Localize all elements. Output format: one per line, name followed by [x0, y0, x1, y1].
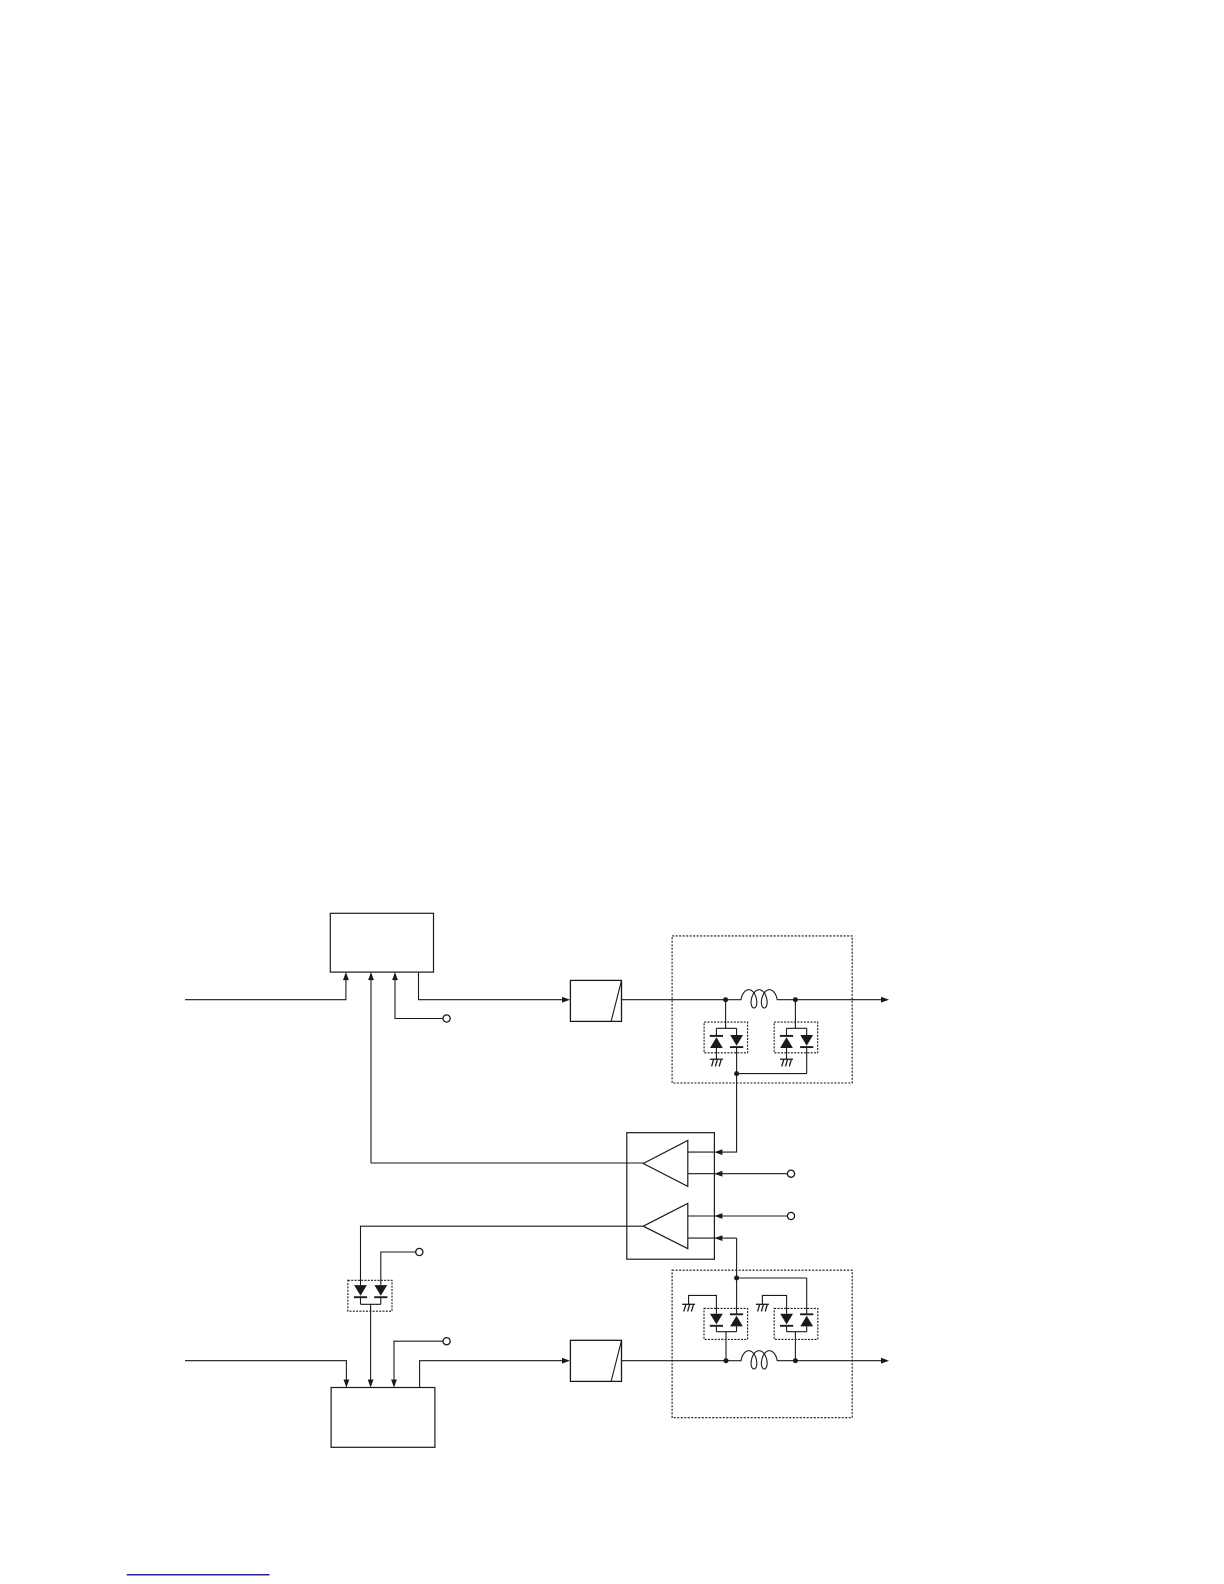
wire: block A output to hybrid T1 — [419, 972, 571, 1003]
wire: U1b lower input stub — [688, 1235, 737, 1278]
wire: clamp bus to comparator U1a input — [714, 1071, 806, 1155]
wire: D5/D6 junction down into block B — [368, 1304, 374, 1387]
wire: upper line through network — [726, 999, 796, 1001]
wire: lower line out — [795, 1358, 889, 1364]
wire: U1b output toward block B — [361, 1226, 644, 1285]
wire: lower line through network — [726, 1360, 795, 1362]
footnote rule (blue) — [127, 1574, 270, 1576]
terminal: block B control input with open-circle terminal — [391, 1338, 450, 1388]
wire: comparator U1a output up into block A — [368, 972, 374, 1163]
wire: upper line-in to block A — [185, 972, 349, 1000]
wire: U1a output to block A — [371, 1162, 643, 1164]
wire: T2 to lower protection network — [622, 1360, 727, 1362]
ground: below D3 — [780, 1059, 793, 1066]
wire: T1 to upper protection network — [622, 999, 727, 1001]
protection network box N2 (dotted) — [672, 1270, 852, 1418]
comparator block U1 — [627, 1133, 715, 1260]
wire: upper line out — [795, 997, 889, 1003]
hybrid transformer T2 — [570, 1340, 621, 1381]
diode pair D5/D6 (series steering, dotted) — [348, 1280, 392, 1311]
diode pair D7/D8 (lower-left clamp, dotted) — [704, 1308, 748, 1360]
ground: below D1 — [710, 1059, 723, 1066]
diode pair D9/D10 (lower-right clamp, dotted) — [774, 1308, 818, 1360]
block A (upper control block) — [330, 913, 433, 972]
wire: clamp bus from comparator U1b — [734, 1276, 807, 1314]
terminal: U1a reference input — [688, 1170, 795, 1177]
op-amp U1b (lower comparator) — [643, 1203, 688, 1248]
node: L1 right junction — [793, 997, 798, 1002]
terminal: bias input to D5/D6 — [381, 1248, 423, 1285]
wire: D9 anode to ground jog — [762, 1295, 786, 1313]
wire: U1a inverting input stub — [688, 1151, 715, 1153]
wire: D7 anode to ground jog — [689, 1295, 717, 1313]
block B (lower control block) — [331, 1388, 435, 1448]
hybrid transformer T1 — [570, 980, 621, 1021]
inductor L1 — [741, 990, 777, 1008]
op-amp U1a (upper comparator) — [643, 1140, 688, 1186]
wire: block B output to hybrid T2 — [420, 1358, 570, 1388]
ground: above D9 — [756, 1304, 769, 1311]
terminal: block A control input with open-circle terminal — [392, 972, 450, 1022]
node: L1 left junction — [723, 997, 728, 1002]
inductor L2 — [741, 1351, 777, 1369]
wire: lower line-in to block B — [185, 1361, 349, 1388]
ground: above D7 — [682, 1304, 695, 1311]
diode pair D3/D4 (upper-right clamp, dotted) — [774, 1000, 818, 1074]
node: L2 left junction — [724, 1358, 729, 1363]
terminal: U1b reference input — [688, 1212, 795, 1219]
node: L2 right junction — [793, 1358, 798, 1363]
protection network box N1 (dotted) — [672, 936, 852, 1083]
diode pair D1/D2 (upper-left clamp, dotted) — [704, 1000, 748, 1074]
